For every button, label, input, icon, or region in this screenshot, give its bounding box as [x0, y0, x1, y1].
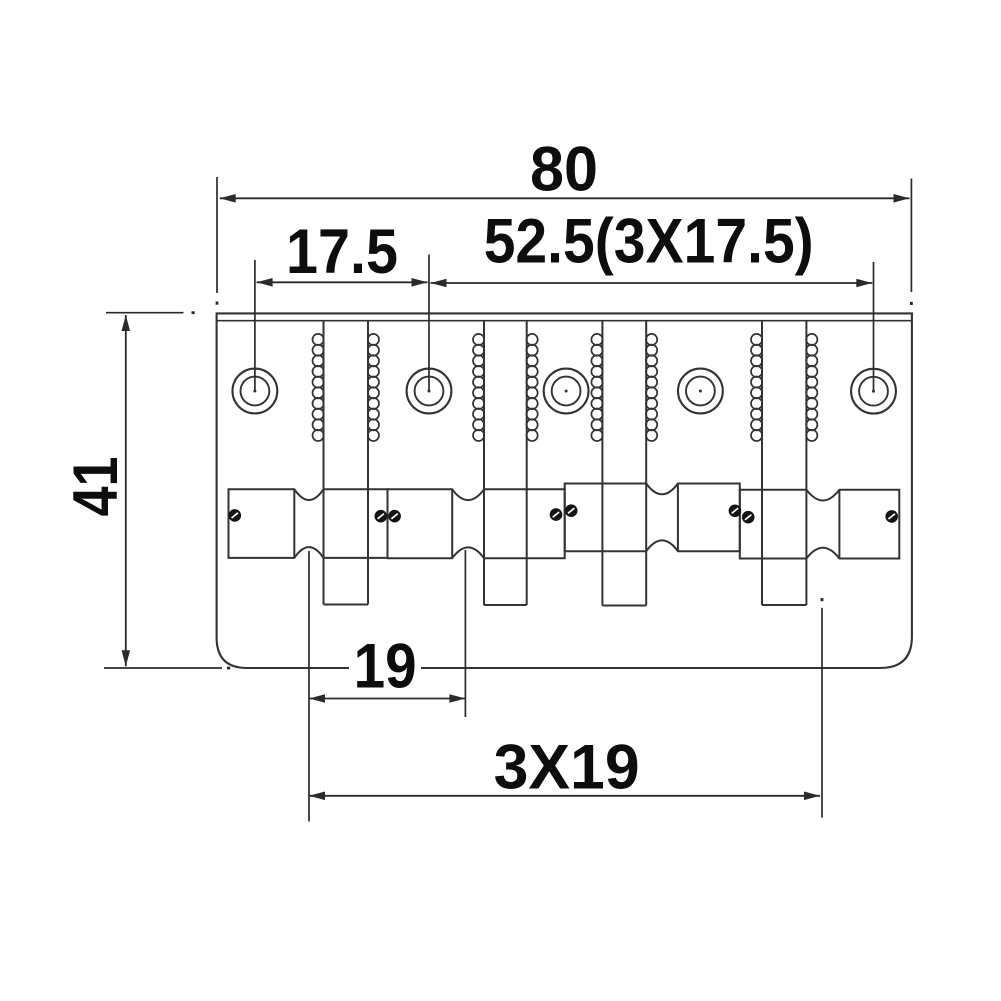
dim 52.5 line — [431, 279, 873, 288]
dim 3X19 line — [309, 792, 820, 801]
height adjust screw 6 — [729, 505, 742, 518]
white knockout behind 19 text — [349, 640, 421, 692]
spring coils around screw 3 — [591, 334, 657, 441]
svg-text:19: 19 — [354, 632, 417, 702]
intonation screw shaft 1 — [324, 321, 369, 605]
saddle 4 — [740, 490, 900, 559]
intonation screw shaft 3 — [602, 321, 646, 606]
dim 41 bottom extension — [104, 667, 230, 670]
dim 3X19 extension line right (string 4 center, dash-dot) — [821, 598, 824, 818]
dim 17.5 extension line left (hole1 center) — [254, 260, 256, 391]
height adjust screw 4 — [550, 508, 563, 521]
dim 80 line — [220, 194, 910, 203]
dim 52.5 extension line right (hole5 center) — [873, 262, 875, 391]
intonation screw shaft 4 — [762, 321, 806, 605]
saddle 2 — [388, 489, 565, 558]
saddle 2 barrel edge — [451, 489, 453, 558]
height adjust screw 5 — [565, 504, 578, 517]
mounting hole H4 — [678, 369, 723, 414]
height adjust screw 7 — [742, 511, 755, 524]
saddle 4 barrel edge — [838, 490, 840, 559]
saddle 3 barrel edge — [677, 484, 679, 552]
dim 80 extension line left — [216, 177, 219, 305]
intonation screw shaft 2 — [484, 321, 527, 605]
saddle 1 — [229, 489, 388, 558]
dim 19 extension line right (string 2 center) — [464, 550, 466, 717]
mounting hole H2 — [407, 369, 452, 414]
bridge plate outline — [217, 313, 912, 668]
svg-text:3X19: 3X19 — [494, 733, 640, 803]
dim 41 line — [122, 315, 131, 666]
height adjust screw 1 — [229, 509, 242, 522]
shared extension line (hole2 center) — [428, 255, 430, 392]
svg-text:17.5: 17.5 — [286, 217, 398, 287]
saddle 3 — [565, 484, 740, 552]
height adjust screw 8 — [885, 510, 898, 523]
spring coils around screw 2 — [473, 334, 538, 441]
svg-text:41: 41 — [61, 457, 131, 517]
mounting hole H5 — [851, 369, 896, 414]
saddle 1 barrel edge — [293, 489, 295, 558]
height adjust screw 2 — [375, 510, 388, 523]
mounting hole H1 — [233, 369, 278, 414]
svg-text:80: 80 — [530, 135, 598, 205]
height adjust screw 3 — [388, 510, 401, 523]
dim 17.5 line — [257, 278, 428, 287]
flange bend line — [217, 320, 912, 322]
dim 80 extension line right — [910, 179, 913, 306]
dim 41 top extension (dash-dot) — [106, 311, 195, 314]
svg-text:52.5(3X17.5): 52.5(3X17.5) — [484, 206, 814, 276]
dim 19 extension line left (string 1 center) — [308, 551, 310, 822]
mounting hole H3 — [544, 369, 589, 414]
dim 19 line — [309, 694, 465, 703]
spring coils around screw 1 — [313, 334, 380, 441]
spring coils around screw 4 — [751, 334, 817, 441]
